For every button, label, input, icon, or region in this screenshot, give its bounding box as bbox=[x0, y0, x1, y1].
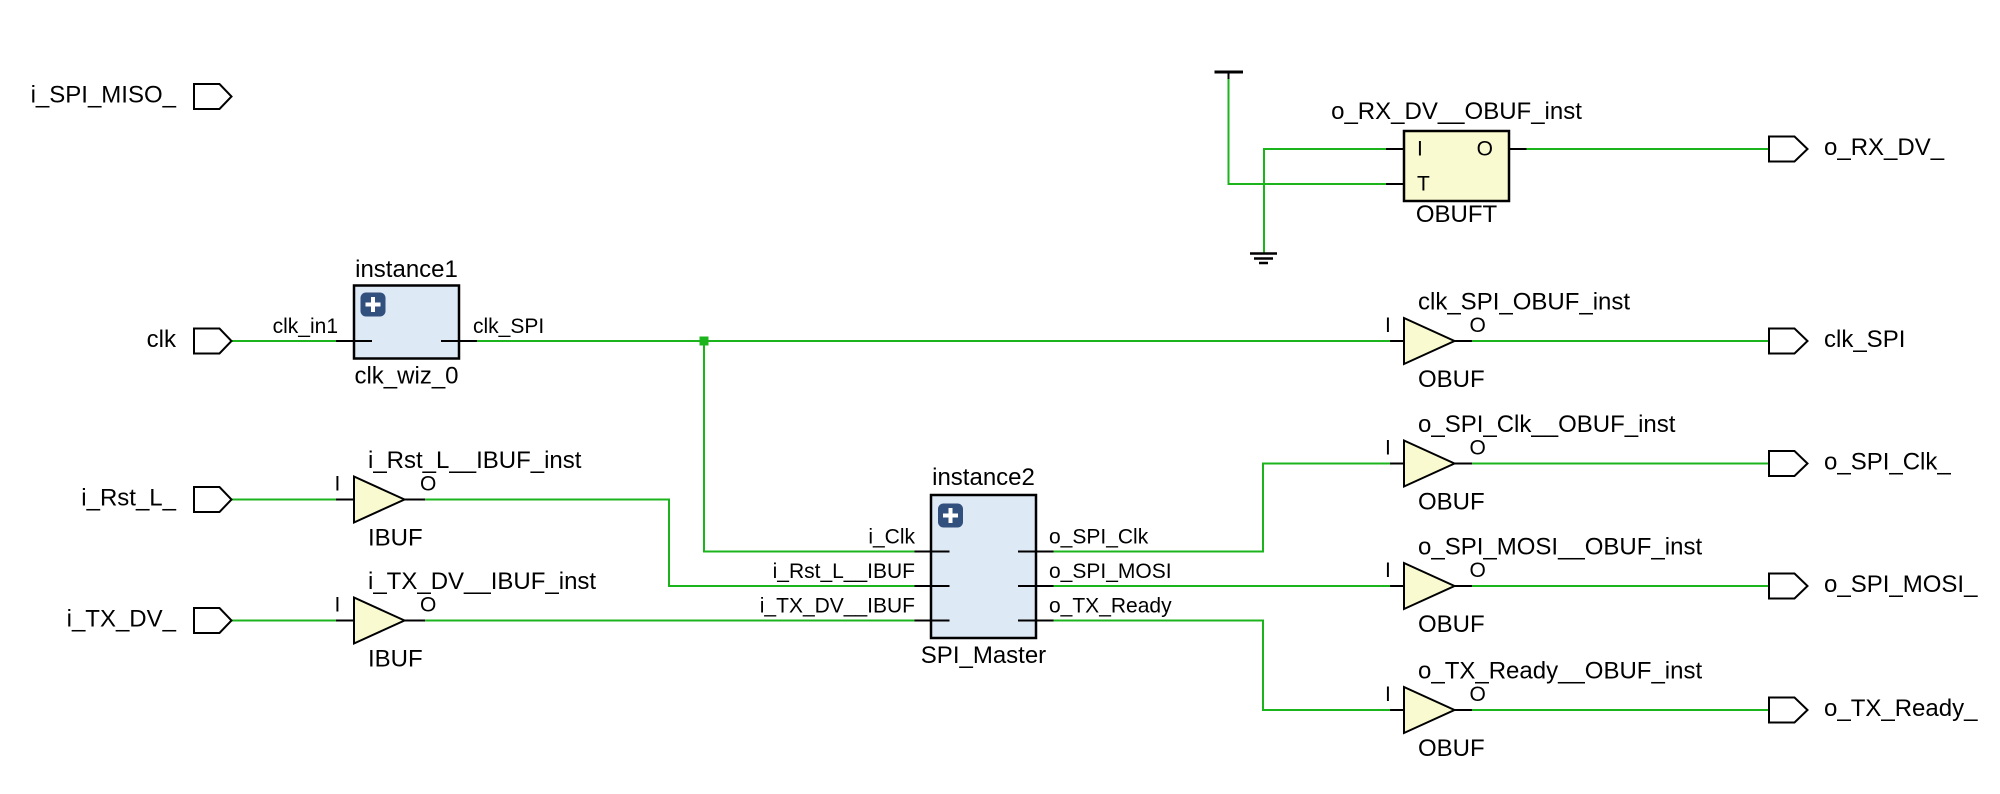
svg-text:clk_SPI: clk_SPI bbox=[473, 315, 544, 338]
svg-text:i_TX_DV_: i_TX_DV_ bbox=[67, 606, 177, 633]
svg-text:i_SPI_MISO_: i_SPI_MISO_ bbox=[31, 82, 177, 109]
svg-text:O: O bbox=[1477, 138, 1493, 161]
svg-text:I: I bbox=[335, 473, 341, 496]
svg-text:o_TX_Ready: o_TX_Ready bbox=[1049, 595, 1172, 618]
svg-text:instance2: instance2 bbox=[932, 464, 1035, 491]
svg-text:clk: clk bbox=[147, 326, 177, 353]
svg-text:instance1: instance1 bbox=[355, 256, 458, 283]
svg-text:O: O bbox=[1470, 559, 1486, 582]
svg-text:I: I bbox=[335, 594, 341, 617]
svg-text:SPI_Master: SPI_Master bbox=[921, 642, 1046, 669]
svg-text:IBUF: IBUF bbox=[368, 646, 423, 673]
svg-text:o_RX_DV__OBUF_inst: o_RX_DV__OBUF_inst bbox=[1331, 98, 1582, 125]
svg-text:clk_SPI_OBUF_inst: clk_SPI_OBUF_inst bbox=[1418, 289, 1630, 316]
svg-text:i_Clk: i_Clk bbox=[868, 526, 915, 549]
svg-text:i_Rst_L__IBUF_inst: i_Rst_L__IBUF_inst bbox=[368, 447, 582, 474]
svg-text:o_SPI_MOSI: o_SPI_MOSI bbox=[1049, 560, 1172, 583]
svg-text:o_SPI_MOSI_: o_SPI_MOSI_ bbox=[1824, 571, 1978, 598]
svg-text:OBUF: OBUF bbox=[1418, 489, 1485, 516]
svg-text:I: I bbox=[1385, 314, 1391, 337]
svg-text:clk_SPI: clk_SPI bbox=[1824, 326, 1905, 353]
svg-text:OBUF: OBUF bbox=[1418, 735, 1485, 762]
svg-text:o_SPI_Clk: o_SPI_Clk bbox=[1049, 526, 1149, 549]
svg-text:i_TX_DV__IBUF_inst: i_TX_DV__IBUF_inst bbox=[368, 568, 596, 595]
svg-text:O: O bbox=[420, 473, 436, 496]
svg-text:I: I bbox=[1385, 437, 1391, 460]
svg-text:IBUF: IBUF bbox=[368, 525, 423, 552]
svg-text:OBUF: OBUF bbox=[1418, 611, 1485, 638]
svg-text:I: I bbox=[1385, 559, 1391, 582]
svg-text:o_TX_Ready_: o_TX_Ready_ bbox=[1824, 695, 1978, 722]
svg-text:clk_in1: clk_in1 bbox=[273, 315, 338, 338]
svg-text:clk_wiz_0: clk_wiz_0 bbox=[354, 363, 458, 390]
svg-text:O: O bbox=[1470, 314, 1486, 337]
svg-text:O: O bbox=[420, 594, 436, 617]
svg-text:O: O bbox=[1470, 437, 1486, 460]
svg-text:o_SPI_Clk_: o_SPI_Clk_ bbox=[1824, 449, 1951, 476]
svg-text:O: O bbox=[1470, 683, 1486, 706]
svg-text:i_Rst_L_: i_Rst_L_ bbox=[81, 485, 176, 512]
svg-text:OBUFT: OBUFT bbox=[1416, 201, 1498, 228]
svg-text:I: I bbox=[1417, 138, 1423, 161]
svg-text:o_TX_Ready__OBUF_inst: o_TX_Ready__OBUF_inst bbox=[1418, 658, 1702, 685]
svg-text:o_SPI_Clk__OBUF_inst: o_SPI_Clk__OBUF_inst bbox=[1418, 411, 1676, 438]
svg-text:i_TX_DV__IBUF: i_TX_DV__IBUF bbox=[760, 595, 915, 618]
svg-text:o_SPI_MOSI__OBUF_inst: o_SPI_MOSI__OBUF_inst bbox=[1418, 534, 1702, 561]
svg-text:o_RX_DV_: o_RX_DV_ bbox=[1824, 134, 1945, 161]
svg-text:i_Rst_L__IBUF: i_Rst_L__IBUF bbox=[773, 560, 915, 583]
svg-text:T: T bbox=[1417, 173, 1430, 196]
svg-text:I: I bbox=[1385, 683, 1391, 706]
svg-text:OBUF: OBUF bbox=[1418, 366, 1485, 393]
